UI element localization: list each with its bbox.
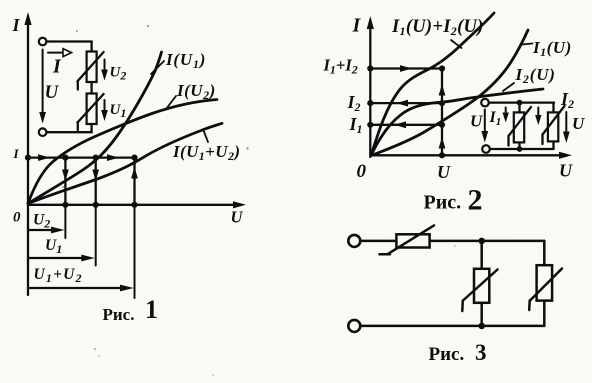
terminal top-left (39, 38, 47, 46)
fig2 label I1(U) with leader (522, 38, 572, 59)
fig2 U axis (370, 152, 572, 159)
wire top rail (360, 240, 544, 243)
varistor R5 (series, horizontal) (380, 225, 435, 254)
svg-text:I1+I2: I1+I2 (323, 56, 358, 77)
svg-text:I2: I2 (560, 89, 574, 111)
svg-text:I2: I2 (347, 92, 361, 114)
terminal top-left (481, 99, 489, 107)
wire middle branch (480, 241, 483, 326)
svg-text:I(U1): I(U1) (165, 50, 206, 71)
varistor R3 (left branch) (509, 107, 532, 146)
terminal bottom-left (482, 145, 490, 153)
svg-text:I1: I1 (349, 114, 363, 136)
wire bottom (46, 124, 91, 132)
wire right branch (543, 241, 546, 326)
svg-text:I: I (12, 15, 21, 35)
fig1 vertical projection at U2 with down arrow (62, 158, 69, 205)
voltage arrow U2 (101, 60, 126, 83)
inset voltage arrow U left (470, 110, 488, 143)
fig1 curve I(U2) (28, 100, 217, 204)
fig1 extension line below axis at U1 (95, 205, 97, 266)
svg-text:U2: U2 (110, 65, 127, 83)
fig2 vertical projection at U with two up arrows (439, 69, 446, 156)
svg-text:I(U2): I(U2) (176, 81, 216, 102)
svg-text:Рис.: Рис. (424, 192, 462, 214)
terminal bottom-left (348, 320, 360, 332)
svg-text:U: U (572, 114, 585, 133)
fig2 curve I2(U) (371, 89, 543, 156)
junction dot bottom (517, 146, 523, 152)
junction dot top (517, 100, 523, 106)
current arrow I (open head) (48, 49, 72, 78)
svg-text:I: I (352, 15, 362, 37)
fig1 label I(U2) with leader (166, 81, 216, 109)
svg-text:U1+U2: U1+U2 (34, 266, 83, 285)
inset voltage arrow U right (563, 112, 585, 143)
fig2 curve I1(U) (371, 30, 528, 156)
varistor R2 (lower, U1) (77, 94, 103, 131)
terminal bottom-left (39, 128, 47, 136)
scan specks (decorative) (62, 25, 456, 376)
fig1 dimension arrow U1+U2 (30, 266, 134, 291)
svg-text:I(U1+U2): I(U1+U2) (172, 142, 240, 163)
svg-text:I1: I1 (489, 109, 502, 128)
svg-text:U2: U2 (33, 212, 50, 231)
svg-text:3: 3 (475, 340, 487, 365)
fig2 label I1(U)+I2(U) with leader (391, 17, 484, 48)
varistor R7 (right branch) (529, 265, 562, 310)
fig2 label I2(U) with leader (503, 65, 556, 91)
fig2 node dots (367, 65, 445, 158)
wire branch 2 (552, 103, 554, 149)
svg-text:0: 0 (13, 210, 21, 226)
svg-text:U1: U1 (110, 102, 127, 120)
fig1 extension line below axis at U1+U2 (134, 205, 136, 298)
wire bottom rail (490, 148, 554, 150)
svg-text:2: 2 (468, 184, 483, 217)
svg-text:U: U (559, 161, 573, 181)
fig2 I1+I2 level line with right arrow (323, 56, 443, 77)
svg-text:Рис.: Рис. (429, 344, 465, 365)
svg-text:I1(U)+I2(U): I1(U)+I2(U) (391, 17, 484, 38)
fig1 curve I(U1+U2) (28, 123, 222, 203)
inset current arrow I2 (535, 89, 574, 125)
fig2 I axis (367, 16, 374, 157)
svg-text:U: U (231, 208, 244, 227)
fig1 label I(U1) with leader (151, 50, 206, 74)
inset current arrow I1 (489, 108, 509, 129)
junction dot top (478, 238, 485, 245)
terminal top-left (348, 235, 360, 247)
fig1 vertical projection at U1 with down arrow (92, 158, 99, 205)
svg-text:U: U (470, 112, 483, 131)
wire branch 1 (518, 103, 520, 149)
svg-text:U1: U1 (45, 237, 62, 256)
svg-text:0: 0 (357, 161, 367, 182)
fig1 node dots on I-level and axis (25, 155, 138, 208)
fig2 curve I1(U)+I2(U) (371, 13, 494, 156)
fig1 I-level line with arrows (28, 154, 135, 161)
wire middle between varistors (90, 82, 92, 94)
svg-text:I: I (13, 146, 20, 161)
fig1 vertical projection at U1+U2 with up arrow (131, 158, 138, 205)
svg-text:I2(U): I2(U) (515, 65, 556, 86)
wire top (46, 42, 91, 52)
fig1 curve I(U1) (28, 52, 162, 204)
svg-text:Рис.: Рис. (103, 305, 135, 324)
fig1 I axis (24, 12, 31, 295)
varistor R4 (right branch) (543, 106, 565, 144)
fig2 I2 level line with left arrow (347, 92, 443, 114)
voltage arrow U (left) (39, 50, 59, 124)
varistor R1 (upper, U2) (77, 52, 103, 90)
svg-text:1: 1 (145, 295, 158, 324)
junction dot bottom (478, 323, 485, 330)
wire top rail (489, 101, 554, 103)
svg-text:U: U (45, 82, 60, 103)
fig1 dimension arrow U2 (30, 212, 65, 234)
fig1 U axis (28, 201, 246, 208)
varistor R6 (middle branch) (462, 269, 497, 311)
fig1 label I(U1+U2) with leader (172, 129, 240, 163)
fig1 dimension arrow U1 (30, 237, 95, 261)
svg-text:I: I (52, 56, 62, 78)
svg-text:U: U (437, 162, 451, 182)
wire bottom rail (360, 325, 544, 328)
fig1 extension line below axis at U2 (64, 205, 66, 238)
voltage arrow U1 (101, 100, 126, 121)
svg-text:I1(U): I1(U) (532, 38, 572, 59)
fig2 I1 level line with left arrow (349, 114, 443, 136)
